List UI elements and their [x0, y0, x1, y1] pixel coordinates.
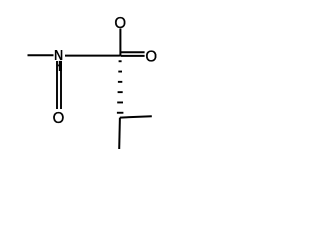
svg-text:O: O [53, 110, 65, 127]
svg-text:O: O [145, 48, 157, 65]
svg-text:O: O [114, 15, 126, 32]
svg-text:N: N [54, 47, 63, 64]
